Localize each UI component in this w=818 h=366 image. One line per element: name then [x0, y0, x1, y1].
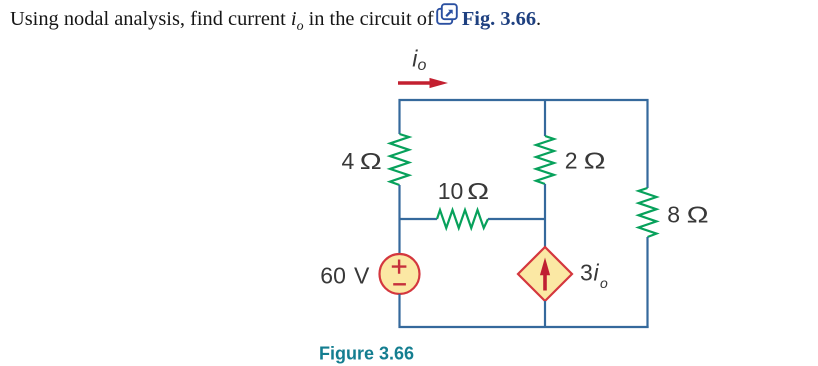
wire: left branch lower segment: [398, 294, 400, 328]
svg-text:Ω: Ω: [467, 178, 489, 204]
label 2 ohm: [565, 148, 606, 174]
svg-text:Figure 3.66: Figure 3.66: [319, 344, 414, 364]
svg-text:Ω: Ω: [584, 148, 606, 174]
wire: middle branch upper segment: [544, 99, 546, 136]
voltage source 60 V: [380, 254, 420, 294]
svg-text:o: o: [600, 275, 608, 291]
label 4 ohm: [342, 148, 382, 174]
dependent current source 3io: [518, 247, 572, 301]
wire: middle horizontal left part: [399, 218, 438, 220]
svg-text:10: 10: [438, 178, 464, 204]
svg-text:o: o: [418, 57, 427, 74]
resistor 8 ohm: [639, 188, 657, 237]
resistor 10 ohm: [437, 210, 488, 228]
svg-text:2: 2: [565, 148, 578, 174]
wire: right branch lower segment: [646, 237, 648, 328]
current arrow io: [398, 78, 448, 88]
label 8 ohm: [667, 202, 708, 228]
wire: middle horizontal right part: [488, 218, 546, 220]
wire: left branch middle segment: [398, 185, 400, 255]
resistor 2 ohm: [536, 136, 554, 184]
external-link icon: [436, 3, 458, 25]
wire: left branch upper segment: [398, 99, 400, 134]
resistor 4 ohm: [390, 134, 409, 185]
svg-text:3: 3: [580, 260, 593, 286]
label 3io: [580, 260, 608, 291]
svg-text:i: i: [594, 260, 600, 286]
wire: middle branch lower segment: [544, 301, 546, 328]
svg-text:Ω: Ω: [360, 148, 382, 174]
svg-text:60: 60: [320, 263, 346, 289]
svg-text:V: V: [354, 263, 370, 289]
wire: middle branch middle segment: [544, 184, 546, 248]
label 60 V: [320, 263, 370, 289]
wire: top horizontal (node A to node C): [399, 99, 649, 101]
svg-text:8: 8: [667, 202, 680, 228]
svg-text:4: 4: [342, 148, 355, 174]
svg-text:Ω: Ω: [687, 202, 709, 228]
wire: right branch upper segment: [646, 99, 648, 188]
current label io: [412, 46, 426, 75]
label 10 ohm: [438, 178, 489, 204]
wire: bottom horizontal (ground rail): [399, 326, 649, 328]
